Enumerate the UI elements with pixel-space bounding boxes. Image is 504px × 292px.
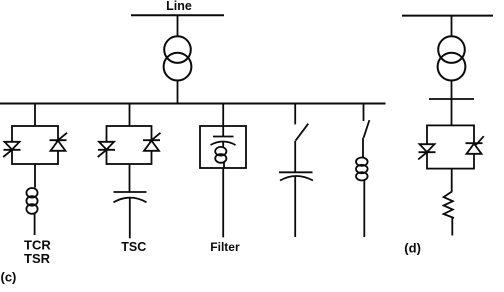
wire filter branch drop	[222, 104, 224, 127]
wire	[177, 15, 179, 36]
wire switched-capacitor branch drop	[294, 104, 296, 125]
terminal bar (d)	[402, 15, 493, 17]
wire	[34, 164, 36, 188]
svg-text:Line: Line	[166, 0, 192, 13]
capacitor (filter)	[211, 137, 236, 146]
svg-text:TSC: TSC	[121, 240, 146, 254]
wire TSC branch drop	[129, 104, 131, 127]
inductor (filter)	[215, 142, 226, 163]
inductor (switched reactor)	[356, 158, 368, 181]
line terminal bar	[131, 14, 224, 16]
wire	[222, 126, 224, 137]
wire	[294, 176, 296, 237]
thyristor valve loop (TCR branch)	[12, 126, 58, 164]
filter box	[200, 126, 246, 168]
wire	[129, 198, 131, 238]
thyristor left (TCR valve)	[3, 142, 20, 157]
svg-text:Filter: Filter	[210, 240, 240, 254]
thyristor right (TSC valve)	[143, 133, 161, 151]
svg-text:(d): (d)	[404, 241, 421, 256]
switch (capacitor branch)	[296, 124, 309, 141]
wire	[451, 169, 453, 192]
capacitor (TSC)	[114, 192, 147, 202]
wire switched-reactor branch drop	[363, 104, 365, 122]
wire	[34, 214, 36, 236]
wire	[294, 141, 296, 173]
inductor (TCR reactor)	[26, 188, 37, 214]
wire	[451, 218, 453, 236]
svg-text:TSR: TSR	[24, 251, 51, 266]
thyristor valve loop (TSC branch)	[107, 126, 152, 164]
thyristor right (TCR valve)	[50, 133, 68, 151]
svg-text:(c): (c)	[1, 269, 17, 284]
wire	[451, 16, 453, 37]
resistor (d)	[444, 191, 454, 218]
wire	[363, 180, 365, 237]
wire	[177, 81, 179, 104]
capacitor (switched)	[279, 172, 313, 180]
bus tick (d)	[429, 98, 474, 100]
wire	[222, 168, 224, 237]
wire	[451, 81, 453, 126]
wire	[362, 138, 364, 158]
thyristor valve loop (d)	[427, 125, 474, 168]
transformer T1	[164, 36, 192, 80]
thyristor left (TSC valve)	[98, 142, 115, 157]
thyristor right (d valve)	[466, 136, 484, 154]
switch (reactor branch)	[364, 120, 370, 138]
bus	[0, 103, 386, 105]
wire TCR branch drop	[34, 104, 36, 127]
thyristor left (d valve)	[418, 144, 435, 159]
transformer T2	[438, 36, 466, 80]
wire	[223, 162, 225, 168]
wire	[129, 164, 131, 192]
